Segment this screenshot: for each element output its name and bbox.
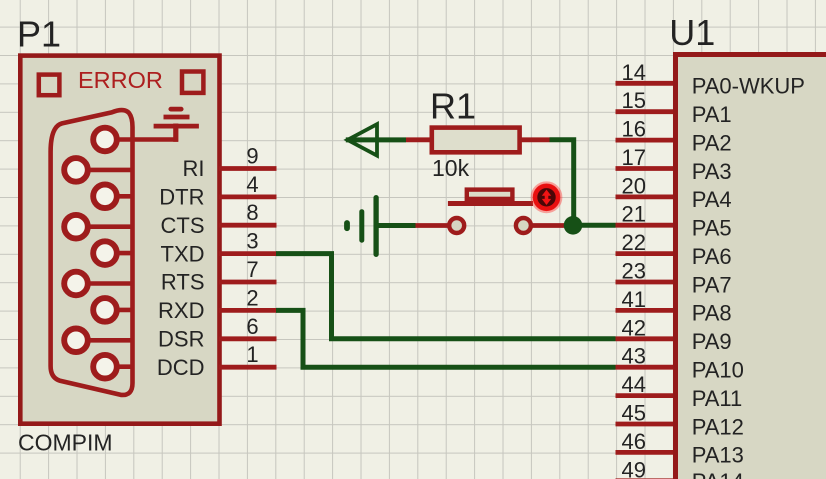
svg-text:RTS: RTS: [161, 270, 205, 295]
svg-text:DTR: DTR: [159, 185, 204, 210]
svg-text:PA1: PA1: [692, 102, 732, 127]
svg-text:10k: 10k: [432, 155, 470, 181]
svg-text:PA4: PA4: [692, 187, 732, 212]
svg-text:PA10: PA10: [692, 358, 744, 383]
svg-text:TXD: TXD: [161, 241, 205, 266]
svg-text:PA12: PA12: [692, 414, 744, 439]
svg-text:PA7: PA7: [692, 272, 732, 297]
svg-text:PA8: PA8: [692, 301, 732, 326]
svg-text:43: 43: [622, 344, 646, 369]
svg-text:PA2: PA2: [692, 130, 732, 155]
svg-text:49: 49: [622, 457, 646, 479]
svg-text:ERROR: ERROR: [78, 67, 163, 93]
svg-text:46: 46: [622, 429, 646, 454]
svg-text:16: 16: [622, 117, 646, 142]
svg-text:9: 9: [246, 144, 258, 169]
svg-text:21: 21: [622, 202, 646, 227]
svg-text:6: 6: [246, 314, 258, 339]
svg-text:45: 45: [622, 401, 646, 426]
svg-text:4: 4: [246, 172, 258, 197]
svg-text:2: 2: [246, 285, 258, 310]
svg-text:17: 17: [622, 145, 646, 170]
svg-text:P1: P1: [17, 13, 61, 54]
svg-text:RXD: RXD: [158, 298, 204, 323]
svg-text:14: 14: [622, 60, 646, 85]
svg-text:3: 3: [246, 229, 258, 254]
svg-text:U1: U1: [669, 12, 715, 53]
svg-text:44: 44: [622, 372, 646, 397]
svg-text:1: 1: [246, 342, 258, 367]
svg-text:42: 42: [622, 315, 646, 340]
svg-text:DSR: DSR: [158, 327, 204, 352]
svg-text:PA3: PA3: [692, 159, 732, 184]
svg-text:8: 8: [246, 200, 258, 225]
svg-text:PA13: PA13: [692, 443, 744, 468]
svg-text:DCD: DCD: [157, 355, 205, 380]
svg-text:RI: RI: [183, 156, 205, 181]
svg-text:41: 41: [622, 287, 646, 312]
svg-text:22: 22: [622, 230, 646, 255]
svg-text:R1: R1: [430, 86, 476, 127]
svg-text:PA5: PA5: [692, 216, 732, 241]
svg-text:PA9: PA9: [692, 329, 732, 354]
svg-text:7: 7: [246, 257, 258, 282]
svg-text:PA14: PA14: [692, 469, 744, 479]
svg-text:PA0-WKUP: PA0-WKUP: [692, 74, 805, 99]
svg-text:20: 20: [622, 173, 646, 198]
svg-text:COMPIM: COMPIM: [18, 430, 113, 456]
svg-text:15: 15: [622, 88, 646, 113]
svg-text:23: 23: [622, 259, 646, 284]
svg-text:PA11: PA11: [692, 386, 743, 411]
svg-text:CTS: CTS: [161, 213, 205, 238]
svg-text:PA6: PA6: [692, 244, 732, 269]
